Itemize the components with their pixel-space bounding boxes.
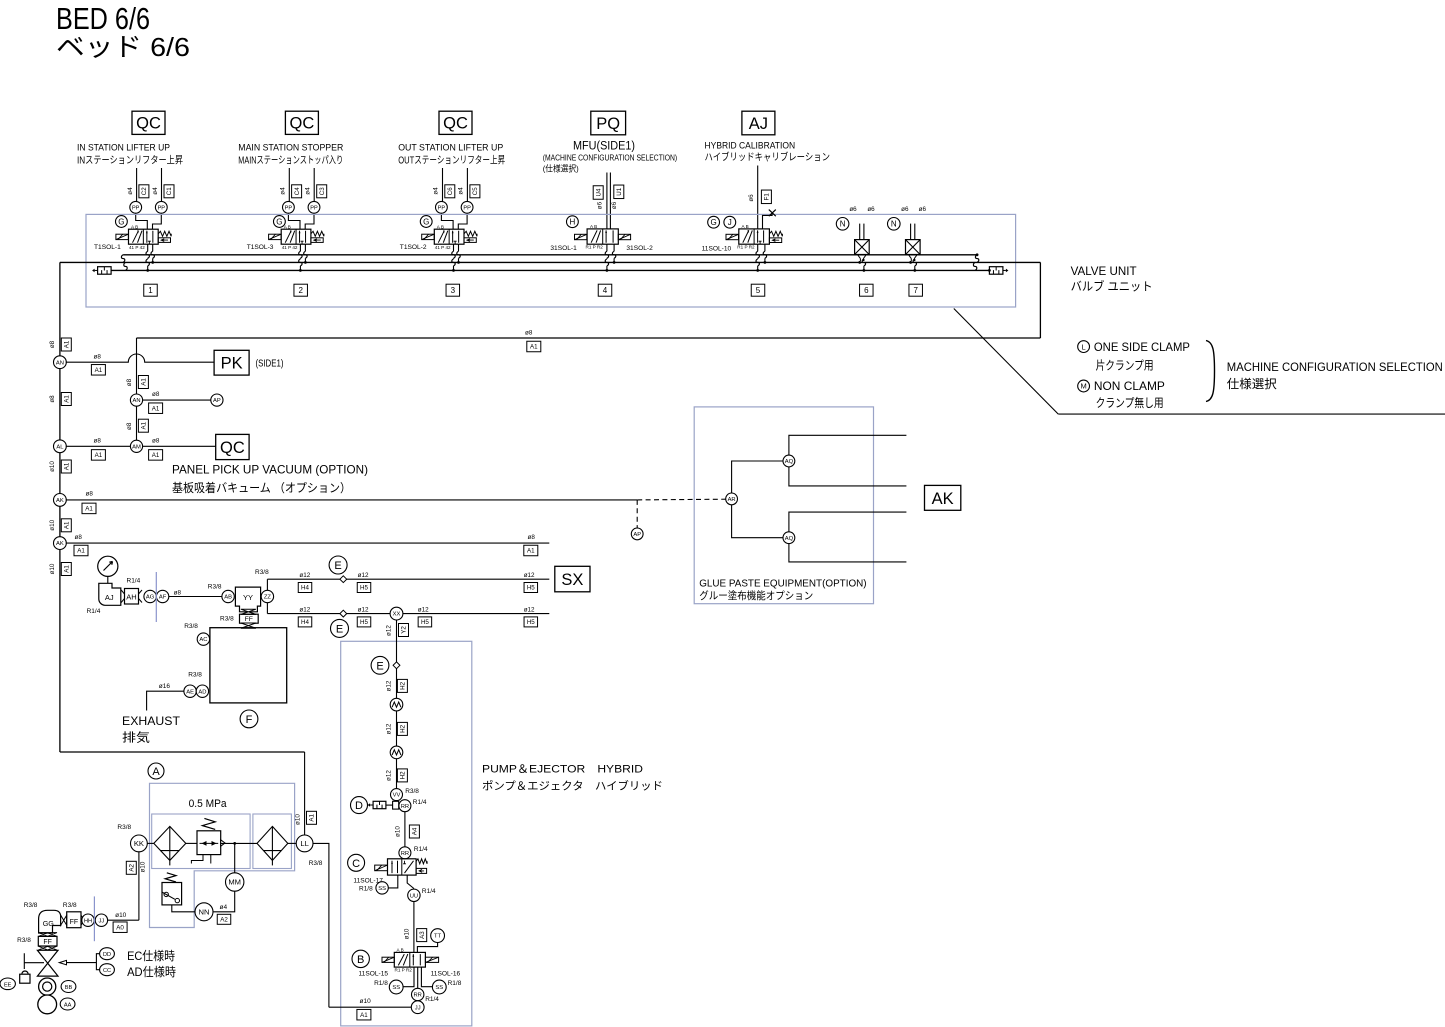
wire drops station 3 to bus bbox=[453, 244, 455, 251]
svg-text:M: M bbox=[1080, 382, 1086, 391]
node AQ upper bbox=[783, 455, 795, 467]
wire AQ upper branches bbox=[789, 435, 907, 455]
svg-text:AQ: AQ bbox=[785, 536, 794, 542]
return spring of T1SOL-2 bbox=[464, 231, 477, 236]
tank vessel F bbox=[210, 628, 287, 703]
station number box 6 bbox=[860, 284, 874, 296]
svg-text:D: D bbox=[355, 800, 363, 812]
svg-text:VV: VV bbox=[393, 793, 401, 799]
page break mark upper bbox=[155, 572, 157, 622]
station number box 1 bbox=[144, 284, 158, 296]
svg-text:仕様選択: 仕様選択 bbox=[1227, 377, 1277, 391]
svg-text:AA: AA bbox=[64, 1002, 72, 1008]
svg-text:クランプ無し用: クランプ無し用 bbox=[1096, 395, 1164, 410]
svg-text:ø12: ø12 bbox=[358, 572, 369, 579]
wire spine bottom corner to LL column bbox=[60, 751, 305, 753]
svg-text:A1: A1 bbox=[64, 340, 71, 348]
svg-text:ø4: ø4 bbox=[220, 904, 228, 911]
wire branch to MM bbox=[234, 843, 236, 872]
diagonal leader from valve unit bbox=[954, 309, 1059, 415]
svg-text:ø8: ø8 bbox=[49, 340, 56, 348]
node AD bbox=[196, 685, 208, 697]
component FF filter at shutoff bbox=[38, 933, 57, 937]
svg-text:XX: XX bbox=[393, 612, 401, 618]
spare station 7 circle N bbox=[888, 218, 901, 231]
svg-text:H5: H5 bbox=[527, 585, 535, 592]
svg-text:C2: C2 bbox=[141, 187, 148, 195]
svg-text:JJ: JJ bbox=[99, 918, 105, 924]
svg-text:SX: SX bbox=[561, 571, 583, 589]
wire UU down to valve B bbox=[413, 902, 415, 953]
svg-text:A2: A2 bbox=[220, 917, 228, 924]
svg-text:(MACHINE CONFIGURATION SELECTI: (MACHINE CONFIGURATION SELECTION) bbox=[543, 154, 678, 163]
svg-text:4: 4 bbox=[603, 286, 608, 295]
node HH bbox=[82, 914, 94, 926]
junction diamond upper bbox=[340, 576, 347, 583]
node AK second on spine bbox=[54, 537, 67, 550]
wire valve B to SS left bbox=[403, 967, 414, 987]
svg-text:ø4: ø4 bbox=[305, 187, 312, 195]
exhaust silencer left bbox=[98, 267, 112, 275]
filter first bbox=[147, 842, 154, 844]
wire drops station 4 to bus bbox=[606, 244, 608, 251]
svg-text:U4: U4 bbox=[595, 188, 602, 196]
wire station 2 pair down to pilot ports bbox=[288, 168, 290, 202]
svg-text:AK: AK bbox=[56, 541, 64, 547]
svg-text:AC: AC bbox=[199, 637, 207, 643]
wire AQ lower branches bbox=[789, 512, 907, 532]
station number box 7 bbox=[909, 284, 923, 296]
svg-text:A B: A B bbox=[397, 948, 404, 953]
svg-text:H5: H5 bbox=[527, 619, 535, 626]
svg-text:PK: PK bbox=[221, 355, 243, 373]
svg-text:ø8: ø8 bbox=[49, 395, 56, 403]
jog L2 to L3 left end bbox=[124, 262, 127, 270]
wire filter to regulator bbox=[186, 842, 197, 844]
pressure gauge bbox=[98, 556, 118, 576]
wire KK down to supply corner bbox=[138, 852, 140, 920]
svg-text:R3/8: R3/8 bbox=[63, 902, 77, 909]
svg-text:PQ: PQ bbox=[596, 115, 620, 133]
node AN on riser bbox=[130, 394, 142, 406]
check valve WW lower bbox=[390, 746, 403, 759]
node D bbox=[351, 797, 368, 814]
station 5 header box AJ bbox=[742, 111, 775, 135]
connector box PK bbox=[214, 350, 249, 375]
station 4 header box PQ bbox=[591, 111, 626, 135]
svg-text:OUT STATION LIFTER UP: OUT STATION LIFTER UP bbox=[398, 143, 503, 154]
svg-text:ø12: ø12 bbox=[386, 770, 393, 781]
pilot circle G for T1SOL-2 bbox=[420, 216, 432, 228]
svg-text:C3: C3 bbox=[319, 187, 326, 195]
page break mark lower bbox=[93, 896, 95, 941]
label A2 box below NN bbox=[217, 914, 231, 924]
svg-text:R3/8: R3/8 bbox=[220, 616, 234, 623]
svg-text:AN: AN bbox=[56, 360, 64, 366]
svg-text:ONE SIDE CLAMP: ONE SIDE CLAMP bbox=[1094, 340, 1190, 354]
station number box 4 bbox=[598, 284, 612, 296]
node AA bbox=[60, 998, 75, 1010]
coupler ring bbox=[39, 978, 56, 995]
wire exhaust from AE bbox=[147, 691, 184, 710]
svg-text:A1: A1 bbox=[64, 395, 71, 403]
svg-text:R1/8: R1/8 bbox=[359, 885, 373, 892]
svg-text:ø8: ø8 bbox=[86, 491, 94, 498]
svg-text:A4: A4 bbox=[412, 827, 419, 835]
svg-text:QC: QC bbox=[443, 115, 468, 133]
node BB bbox=[61, 981, 76, 993]
arrow to shutoff valve bbox=[66, 962, 96, 964]
svg-text:31SOL-1: 31SOL-1 bbox=[550, 245, 577, 252]
node SS right of valve B bbox=[432, 980, 446, 994]
wire horizontal leader to right edge bbox=[1058, 413, 1445, 415]
node TT bbox=[431, 929, 445, 943]
svg-text:11SOL-16: 11SOL-16 bbox=[431, 971, 461, 978]
svg-text:ø12: ø12 bbox=[386, 680, 393, 691]
station number box 3 bbox=[446, 284, 460, 296]
jog L1 to L2 right end bbox=[976, 253, 979, 256]
wire supply into JJ bbox=[329, 1006, 411, 1008]
svg-text:EXHAUST: EXHAUST bbox=[122, 714, 181, 728]
return spring of T1SOL-3 bbox=[311, 231, 324, 236]
svg-text:R3/8: R3/8 bbox=[24, 902, 38, 909]
svg-text:FF: FF bbox=[70, 919, 79, 926]
svg-text:R3/8: R3/8 bbox=[255, 569, 269, 576]
svg-text:ø8: ø8 bbox=[94, 437, 102, 444]
svg-text:G: G bbox=[276, 217, 282, 226]
svg-text:バルブ ユニット: バルブ ユニット bbox=[1071, 279, 1153, 294]
svg-text:LL: LL bbox=[300, 839, 308, 848]
wire drops station 2 to bus bbox=[299, 244, 301, 251]
wire 11SOL-10 port B to plug bbox=[763, 213, 773, 229]
svg-text:KK: KK bbox=[134, 839, 144, 848]
node SS left of valve B bbox=[389, 980, 403, 994]
wire TT to valve B bbox=[417, 943, 437, 953]
svg-text:A3: A3 bbox=[419, 931, 426, 939]
svg-text:G: G bbox=[710, 218, 716, 227]
junction box at D bbox=[393, 801, 399, 809]
svg-text:H5: H5 bbox=[360, 585, 368, 592]
spare station 6 blanking plate bbox=[855, 240, 870, 255]
svg-text:A1: A1 bbox=[530, 344, 538, 351]
svg-text:排気: 排気 bbox=[122, 730, 150, 745]
svg-text:(SIDE1): (SIDE1) bbox=[256, 359, 284, 370]
station 2 header box QC bbox=[285, 111, 318, 134]
svg-text:ø10: ø10 bbox=[140, 861, 147, 872]
wire AM to QC bbox=[142, 445, 215, 447]
manual override of 11SOL-10 bbox=[769, 238, 781, 243]
svg-text:A1: A1 bbox=[64, 521, 71, 529]
svg-text:H4: H4 bbox=[301, 585, 309, 592]
machine configuration selection circle M bbox=[1078, 380, 1090, 392]
valve T1SOL-3 5/2 single solenoid bbox=[269, 224, 324, 250]
svg-text:E: E bbox=[334, 560, 341, 572]
wire exhaust bus L3 bbox=[111, 269, 989, 271]
svg-text:AF: AF bbox=[159, 595, 167, 601]
svg-text:ø6: ø6 bbox=[901, 206, 909, 213]
station 3 wire PP to valve ports bbox=[441, 213, 453, 229]
node A bbox=[148, 763, 164, 779]
svg-text:A B: A B bbox=[590, 224, 597, 229]
svg-text:C6: C6 bbox=[447, 187, 454, 195]
lock symbol bbox=[22, 971, 28, 974]
svg-text:G: G bbox=[118, 217, 124, 226]
wire AK second to right bbox=[66, 542, 550, 544]
node B bbox=[352, 950, 369, 967]
svg-text:SS: SS bbox=[392, 985, 400, 991]
wire MM down to NN bbox=[213, 891, 235, 912]
svg-text:ø12: ø12 bbox=[299, 606, 310, 613]
svg-text:ø10: ø10 bbox=[115, 912, 127, 919]
svg-text:AR: AR bbox=[728, 497, 736, 503]
svg-text:C1: C1 bbox=[166, 187, 173, 195]
svg-text:QC: QC bbox=[220, 439, 245, 457]
svg-text:NON CLAMP: NON CLAMP bbox=[1094, 379, 1165, 393]
manual override of T1SOL-1 bbox=[158, 238, 170, 243]
node RR above valve C bbox=[399, 847, 411, 859]
svg-text:R3/8: R3/8 bbox=[309, 860, 323, 867]
svg-text:R1/4: R1/4 bbox=[127, 577, 141, 584]
svg-text:A1: A1 bbox=[152, 405, 160, 412]
svg-text:E: E bbox=[376, 660, 383, 672]
wire filter second to LL bbox=[288, 842, 296, 844]
node AN on spine bbox=[54, 356, 67, 369]
svg-text:7: 7 bbox=[913, 286, 918, 295]
svg-text:R1 P R2: R1 P R2 bbox=[737, 245, 755, 250]
node RR at D bbox=[399, 800, 411, 812]
svg-text:PP: PP bbox=[438, 205, 446, 211]
svg-text:R3/8: R3/8 bbox=[188, 671, 202, 678]
svg-text:AQ: AQ bbox=[785, 459, 794, 465]
svg-text:TT: TT bbox=[434, 934, 442, 940]
svg-text:A1: A1 bbox=[141, 378, 148, 386]
jog L2 to L3 right end bbox=[973, 262, 976, 270]
svg-text:SS: SS bbox=[378, 886, 386, 892]
node DD bbox=[100, 948, 115, 960]
svg-text:ø6: ø6 bbox=[919, 206, 927, 213]
node UU bbox=[408, 889, 420, 901]
node AK on spine bbox=[54, 494, 67, 507]
svg-text:J: J bbox=[728, 218, 732, 227]
spare station 7 stub tubes bbox=[910, 224, 912, 240]
component YY vacuum ejector bbox=[235, 587, 260, 612]
svg-text:A: A bbox=[152, 766, 160, 778]
component AH fitting bbox=[125, 589, 139, 605]
svg-text:AN: AN bbox=[132, 398, 140, 404]
svg-text:MFU(SIDE1): MFU(SIDE1) bbox=[573, 140, 635, 152]
svg-text:ø8: ø8 bbox=[75, 534, 83, 541]
station 2 port circles PP PP bbox=[283, 201, 295, 213]
pressure switch bbox=[162, 883, 182, 905]
svg-text:PP: PP bbox=[132, 205, 140, 211]
station 1 header box QC bbox=[132, 111, 165, 134]
svg-text:AE: AE bbox=[186, 689, 194, 695]
svg-text:ø4: ø4 bbox=[152, 187, 159, 195]
component AJ regulator bbox=[99, 583, 121, 605]
svg-text:AG: AG bbox=[146, 595, 155, 601]
svg-text:H2: H2 bbox=[400, 681, 407, 689]
wire valve C to SS bbox=[388, 875, 398, 888]
svg-text:A2: A2 bbox=[129, 863, 136, 871]
svg-text:R3/8: R3/8 bbox=[184, 623, 198, 630]
wire pilot bus L1 bbox=[123, 254, 977, 256]
svg-text:ø10: ø10 bbox=[403, 928, 410, 939]
svg-text:AH: AH bbox=[126, 592, 136, 601]
svg-text:R3/8: R3/8 bbox=[208, 583, 222, 590]
pilot circles G J for 11SOL-10 bbox=[708, 216, 720, 228]
svg-text:NN: NN bbox=[199, 908, 210, 917]
svg-text:ø10: ø10 bbox=[49, 519, 56, 530]
station 2 wire PP to valve ports bbox=[288, 213, 300, 229]
solenoid of T1SOL-2 bbox=[422, 234, 435, 239]
solenoid of 11SOL-10 bbox=[726, 234, 739, 239]
wire valve B to RR bbox=[417, 967, 419, 988]
node E lower bbox=[331, 619, 349, 637]
svg-text:41 P 42: 41 P 42 bbox=[129, 245, 145, 250]
node CC bbox=[100, 964, 115, 976]
node AL on spine bbox=[54, 440, 67, 453]
svg-text:OUTステーションリフター上昇: OUTステーションリフター上昇 bbox=[398, 155, 505, 167]
svg-text:A1: A1 bbox=[64, 565, 71, 573]
svg-text:41 P 42: 41 P 42 bbox=[435, 245, 451, 250]
valve 31SOL-1/31SOL-2 double solenoid bbox=[575, 224, 631, 250]
wire shutoff valve to lock bbox=[24, 953, 44, 969]
wire AR branch up to AQ bbox=[732, 461, 783, 493]
node AC bbox=[197, 633, 209, 645]
svg-text:ø10: ø10 bbox=[49, 461, 56, 472]
svg-text:41 P 42: 41 P 42 bbox=[282, 245, 298, 250]
valve 11SOL-17 3/2 single solenoid bbox=[375, 859, 427, 875]
svg-text:ø8: ø8 bbox=[528, 534, 536, 541]
svg-text:A1: A1 bbox=[141, 421, 148, 429]
svg-text:A B: A B bbox=[742, 224, 749, 229]
svg-text:A0: A0 bbox=[116, 924, 124, 931]
wire valve B to SS right bbox=[421, 967, 432, 987]
selection bracket DD CC bbox=[96, 954, 99, 970]
svg-text:A B: A B bbox=[131, 224, 138, 229]
plugged port X symbol bbox=[769, 210, 776, 217]
svg-text:ø10: ø10 bbox=[49, 563, 56, 574]
filter second bbox=[257, 826, 288, 860]
svg-text:C: C bbox=[352, 858, 360, 870]
svg-text:H5: H5 bbox=[421, 619, 429, 626]
svg-text:BED 6/6: BED 6/6 bbox=[56, 1, 150, 36]
wire station 5 from AJ bbox=[757, 166, 759, 229]
jog L1 to L2 left end bbox=[121, 255, 124, 263]
solenoid 31SOL-1 bbox=[575, 234, 587, 239]
node AP option bbox=[631, 528, 643, 540]
valve 11SOL-15/11SOL-16 double solenoid bbox=[382, 948, 439, 973]
svg-text:Y2: Y2 bbox=[401, 626, 408, 634]
svg-text:QC: QC bbox=[290, 115, 315, 133]
svg-text:PP: PP bbox=[158, 205, 166, 211]
svg-text:MAINステーションストッパ入り: MAINステーションストッパ入り bbox=[238, 155, 343, 167]
manual override of T1SOL-2 bbox=[464, 238, 476, 243]
svg-text:DD: DD bbox=[103, 952, 111, 958]
brace bracket bbox=[1206, 341, 1215, 402]
connector box SX bbox=[555, 566, 590, 592]
svg-text:AP: AP bbox=[213, 398, 221, 404]
wire AL to AM bbox=[66, 445, 131, 447]
svg-text:ø8: ø8 bbox=[152, 437, 160, 444]
svg-text:PP: PP bbox=[463, 205, 471, 211]
svg-text:ø8: ø8 bbox=[152, 391, 160, 398]
wire AN to AP bbox=[142, 399, 211, 401]
svg-text:PP: PP bbox=[285, 205, 293, 211]
wire regulator to second filter bbox=[221, 842, 257, 844]
wire ø12 line lower bbox=[267, 613, 549, 615]
station 1 wire PP to valve ports bbox=[136, 213, 148, 229]
node AF bbox=[156, 590, 168, 602]
regulator with spring bbox=[197, 831, 221, 855]
svg-text:H: H bbox=[570, 218, 576, 227]
wire station 4 pair down from PQ bbox=[606, 173, 608, 229]
svg-text:ø4: ø4 bbox=[127, 187, 134, 195]
svg-text:ø6: ø6 bbox=[867, 206, 875, 213]
wire XX down into pump unit bbox=[396, 620, 398, 801]
label A2 ø10 on KK downline bbox=[126, 861, 136, 874]
svg-text:EC仕様時: EC仕様時 bbox=[127, 949, 175, 963]
svg-text:1: 1 bbox=[148, 286, 153, 295]
node AQ lower bbox=[783, 532, 795, 544]
svg-text:RR: RR bbox=[401, 804, 409, 810]
svg-text:ø8: ø8 bbox=[126, 422, 133, 430]
wire drops station 1 to bus bbox=[147, 244, 149, 251]
wire drops spare station 7 to bus bbox=[910, 261, 912, 262]
svg-text:UU: UU bbox=[410, 893, 418, 899]
svg-text:INステーションリフター上昇: INステーションリフター上昇 bbox=[77, 155, 183, 167]
svg-text:ø4: ø4 bbox=[458, 187, 465, 195]
svg-text:5: 5 bbox=[756, 286, 761, 295]
solenoid 31SOL-2 bbox=[618, 234, 630, 239]
svg-text:R1/8: R1/8 bbox=[374, 980, 388, 987]
svg-text:GLUE PASTE EQUIPMENT(OPTION): GLUE PASTE EQUIPMENT(OPTION) bbox=[699, 577, 866, 589]
svg-text:A1: A1 bbox=[85, 506, 93, 513]
svg-text:ø12: ø12 bbox=[386, 625, 393, 636]
svg-text:ø12: ø12 bbox=[418, 606, 429, 613]
node MM pressure gauge bbox=[226, 873, 244, 891]
svg-text:EE: EE bbox=[4, 982, 12, 988]
svg-text:FF: FF bbox=[43, 939, 52, 946]
svg-text:BB: BB bbox=[65, 985, 73, 991]
node XX on lower line bbox=[390, 607, 403, 620]
valve T1SOL-1 5/2 single solenoid bbox=[116, 224, 171, 250]
manual override of T1SOL-3 bbox=[311, 238, 323, 243]
wire LL to pump unit bbox=[313, 843, 329, 1007]
spare station 6 check marks bbox=[858, 255, 866, 261]
wire station 3 pair down to pilot ports bbox=[442, 168, 444, 202]
svg-text:R1/8: R1/8 bbox=[448, 980, 462, 987]
wire supply exit right corner bbox=[1039, 262, 1041, 338]
svg-text:R1 P R2: R1 P R2 bbox=[395, 968, 413, 973]
wire dashed down to AP option bbox=[636, 500, 638, 528]
svg-text:ø6: ø6 bbox=[596, 201, 603, 209]
svg-text:R1/4: R1/4 bbox=[414, 846, 428, 853]
wire riser x=136.5 down bbox=[136, 338, 138, 446]
svg-text:A1: A1 bbox=[95, 367, 103, 374]
svg-text:H2: H2 bbox=[400, 724, 407, 732]
station 3 port circles PP PP bbox=[436, 201, 448, 213]
wire AN to PK with crossover hump bbox=[66, 354, 214, 362]
svg-text:AK: AK bbox=[932, 490, 954, 508]
node AG bbox=[144, 590, 156, 602]
wire ø12 line upper to SX bbox=[267, 578, 549, 580]
svg-text:ø12: ø12 bbox=[524, 572, 535, 579]
svg-text:ベッド 6/6: ベッド 6/6 bbox=[56, 32, 190, 62]
spare station 6 circle N bbox=[836, 218, 849, 231]
svg-text:ø12: ø12 bbox=[358, 606, 369, 613]
station number box 5 bbox=[751, 284, 765, 296]
